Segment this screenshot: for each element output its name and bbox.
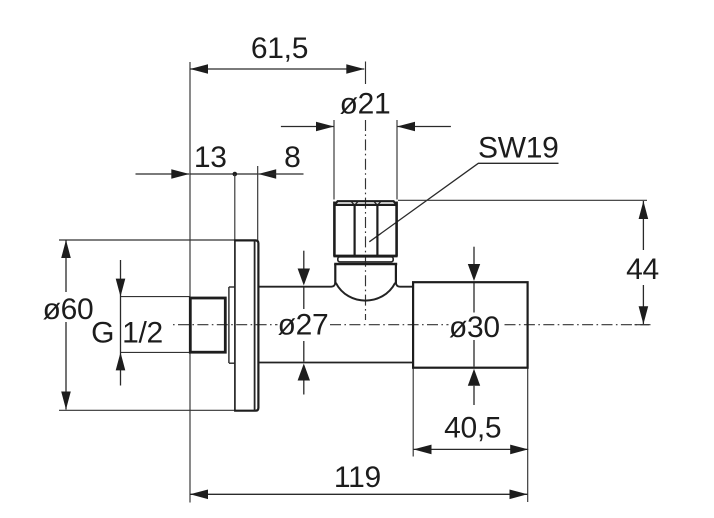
bonnet xyxy=(334,264,397,284)
svg-text:40,5: 40,5 xyxy=(444,412,501,445)
dimension 61,5 xyxy=(190,32,366,84)
extension line left main (x=190) xyxy=(189,62,191,503)
centerline vertical (nut axis) xyxy=(365,120,367,320)
nut SW19 xyxy=(334,201,398,256)
dimension ø60 xyxy=(43,240,236,410)
dimension ø21 xyxy=(281,88,451,200)
dimension 119 xyxy=(190,461,528,499)
outlet block ø30 xyxy=(413,282,527,368)
svg-text:ø27: ø27 xyxy=(278,309,329,342)
svg-text:44: 44 xyxy=(626,253,659,286)
thread stub G1/2 xyxy=(190,298,225,352)
dimension ø27 xyxy=(278,251,329,395)
svg-text:SW19: SW19 xyxy=(478,132,559,165)
dome of valve body xyxy=(336,283,395,301)
wall plate xyxy=(234,240,258,412)
svg-text:61,5: 61,5 xyxy=(251,32,308,65)
svg-text:ø21: ø21 xyxy=(340,88,391,121)
dimension 44 xyxy=(398,200,659,324)
svg-text:119: 119 xyxy=(334,461,381,494)
body tube ø27 xyxy=(259,283,412,363)
label SW19 + leader xyxy=(369,132,558,242)
dimension 13 and 8 xyxy=(136,141,304,240)
dimension ø30 xyxy=(449,247,500,405)
dimension G 1/2 xyxy=(91,260,190,386)
svg-text:G 1/2: G 1/2 xyxy=(91,317,163,350)
collar behind plate xyxy=(229,287,235,363)
centerline horizontal xyxy=(173,324,278,326)
washer under nut xyxy=(338,257,393,262)
dimension 40,5 xyxy=(413,369,528,503)
svg-text:8: 8 xyxy=(284,141,300,174)
svg-text:ø60: ø60 xyxy=(43,293,94,326)
svg-text:13: 13 xyxy=(194,141,227,174)
svg-text:ø30: ø30 xyxy=(449,311,500,344)
